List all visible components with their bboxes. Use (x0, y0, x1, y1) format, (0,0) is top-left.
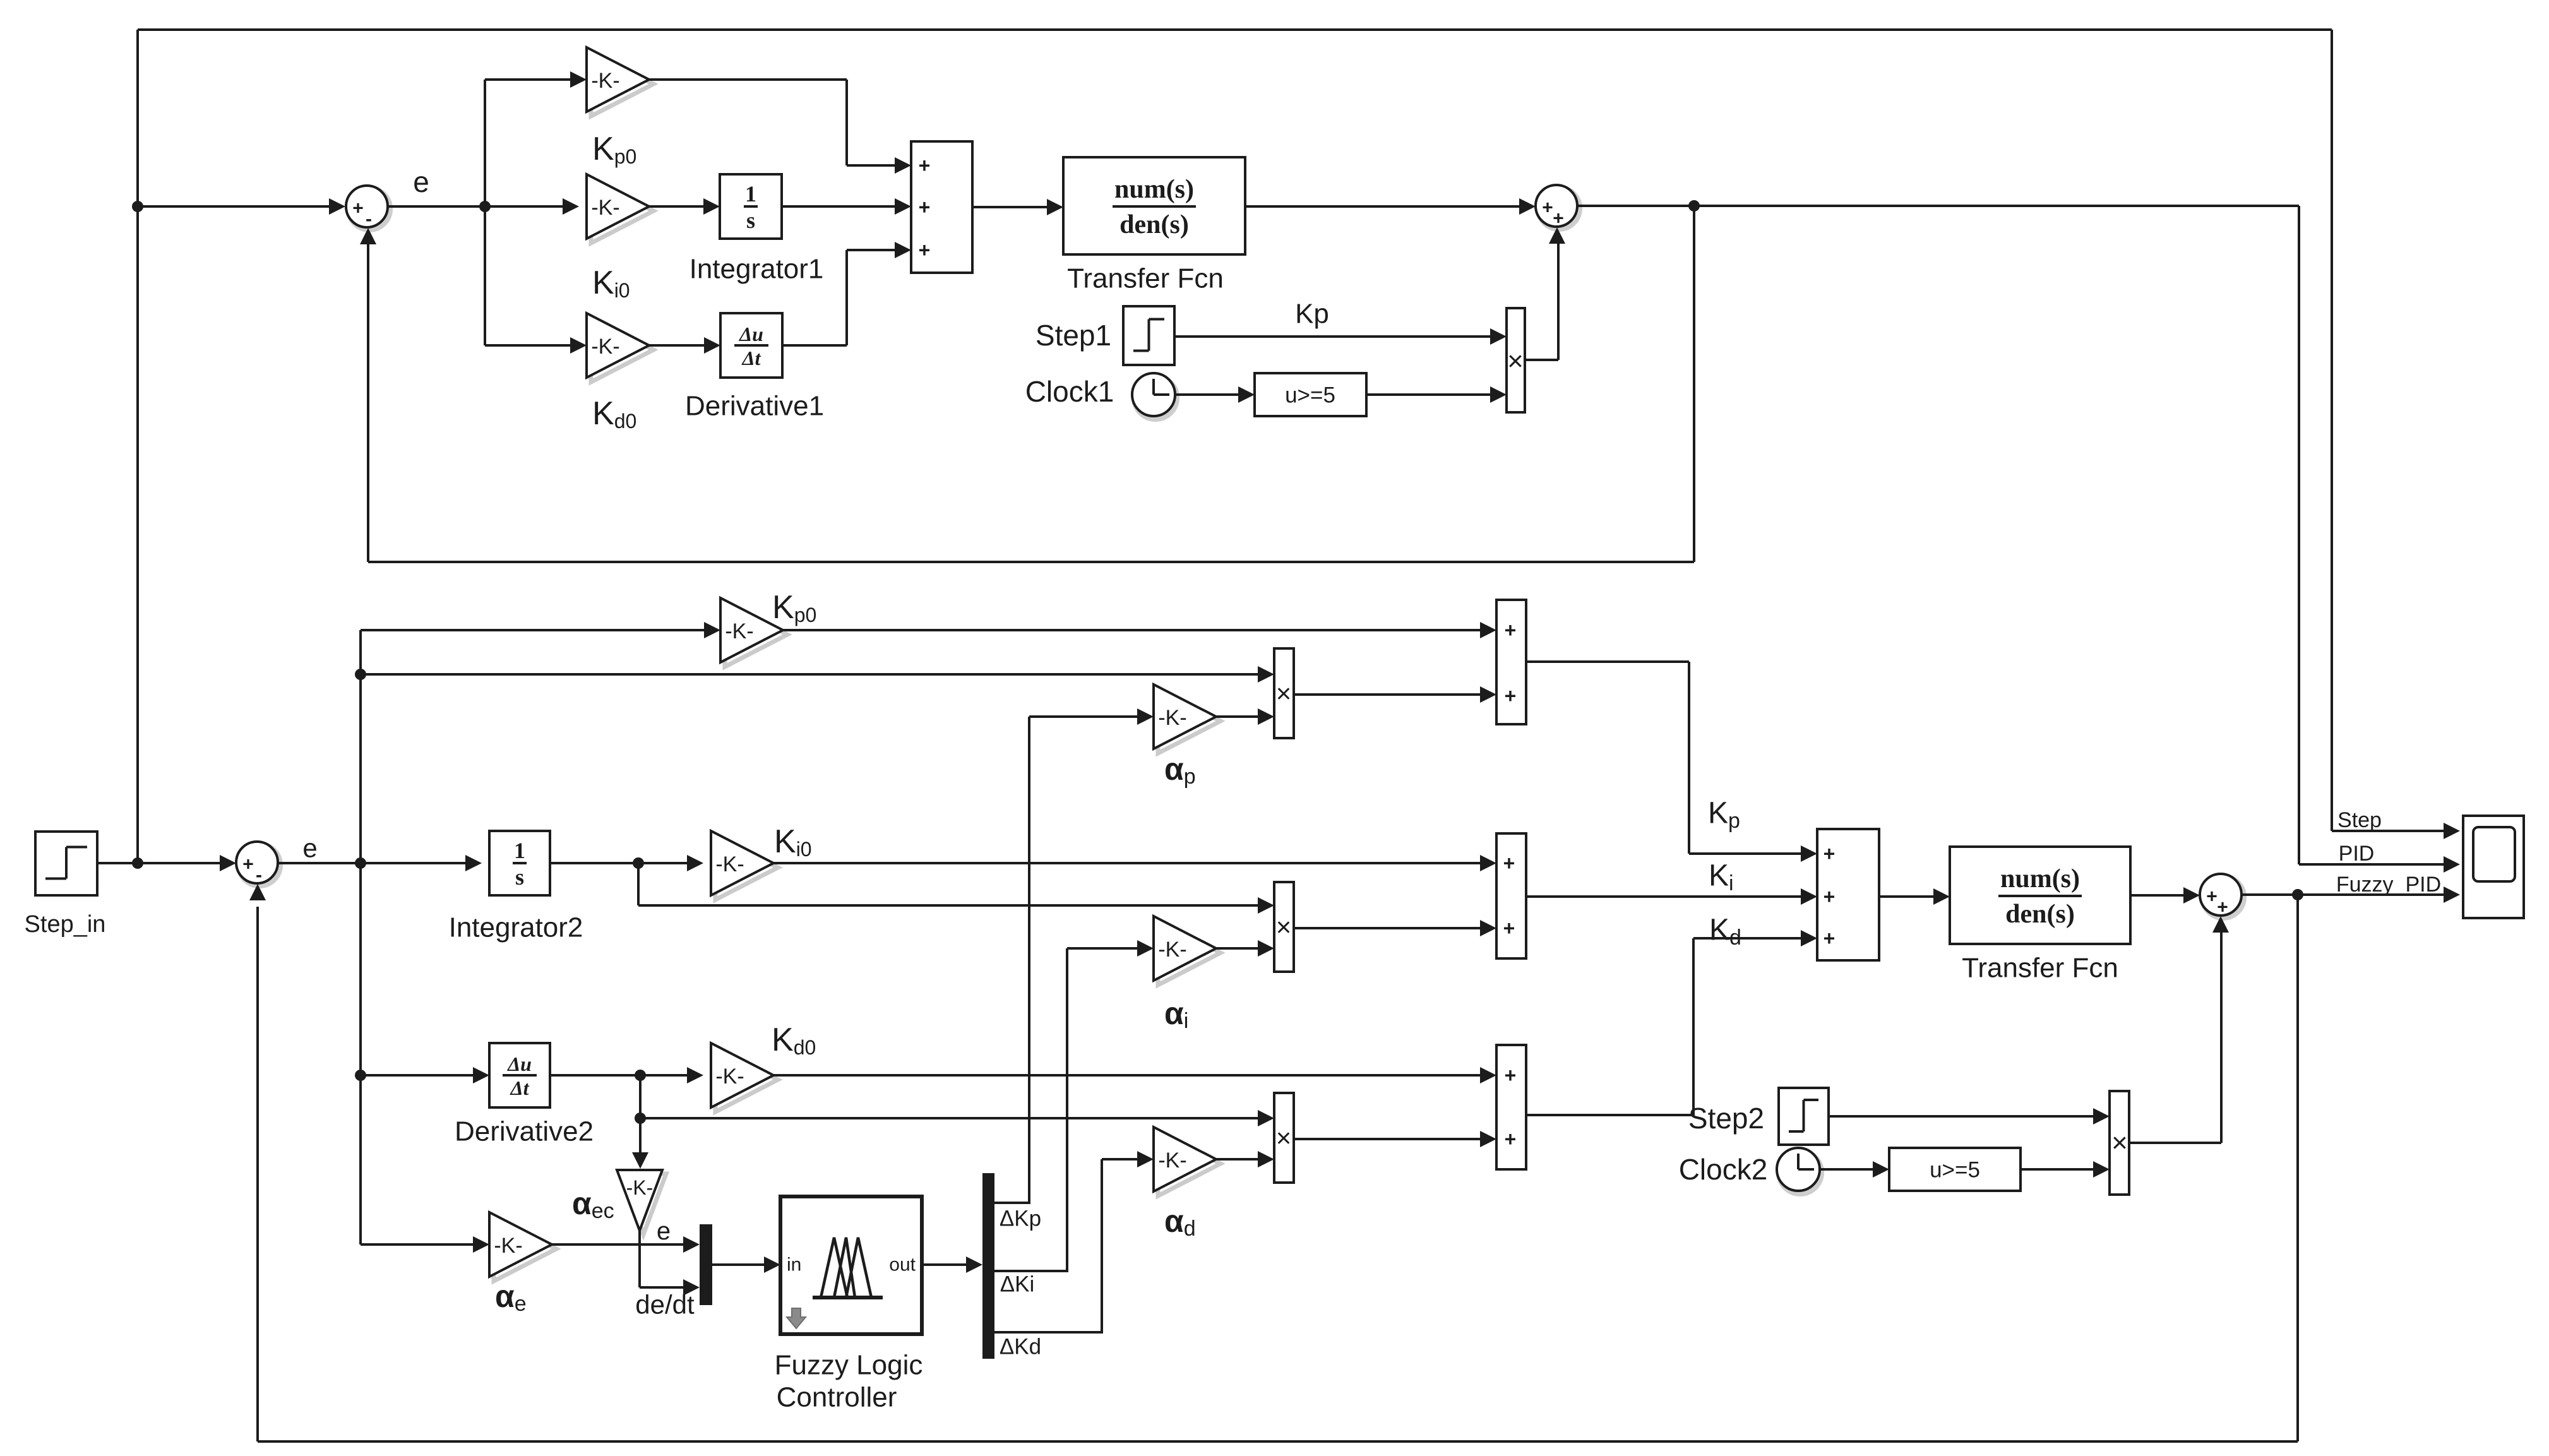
node: tap to PID sum (132, 201, 143, 212)
node: after Integrator2 (633, 857, 644, 869)
label Integrator2 (449, 912, 583, 943)
label dKi (1000, 1272, 1035, 1297)
wire: Product2 out up into sum S4 (2129, 916, 2229, 1143)
svg-text:num(s): num(s) (1114, 175, 1194, 204)
wire: Step1 out to product (1174, 328, 1507, 345)
svg-text:Fuzzy_PID: Fuzzy_PID (2336, 873, 2441, 897)
svg-text:e: e (302, 833, 317, 863)
label Kp0 (bottom) (772, 589, 816, 626)
svg-text:Δu: Δu (738, 323, 763, 345)
label Step_in (25, 911, 106, 938)
svg-text:PID: PID (2339, 842, 2375, 866)
label out (fuzzy port) (889, 1255, 916, 1275)
icon membership functions (813, 1238, 883, 1298)
svg-text:s: s (515, 864, 524, 890)
svg-text:-K-: -K- (715, 852, 744, 876)
wire: Kd0 out to d-sum (773, 1067, 1496, 1083)
wire: top PID output line (1577, 205, 2299, 207)
sum block Add1 (PID terms) (911, 141, 972, 273)
svg-text:+: + (242, 854, 254, 875)
sum junction S4 (fuzzy plant out + Kp disturbance) (2200, 874, 2244, 918)
gain Ki0 (top) (587, 174, 654, 243)
sum block (i path) (1496, 833, 1526, 958)
label Clock2 (1679, 1153, 1768, 1186)
label Ki (fuzzy) (1709, 859, 1734, 896)
svg-text:×: × (2111, 1128, 2128, 1159)
svg-text:Integrator2: Integrator2 (449, 912, 583, 943)
wire: Clock1 out (1175, 386, 1255, 403)
svg-text:-: - (366, 209, 372, 230)
wire: bottom feedback down (2296, 895, 2299, 1441)
svg-text:Integrator1: Integrator1 (689, 254, 824, 285)
wire: alpha-e out to mux (552, 1236, 700, 1253)
product block Product2 (2110, 1091, 2129, 1195)
gain Kp0 (bottom) (720, 598, 787, 667)
block compare u>=5 (bottom) (1889, 1148, 2021, 1191)
label Derivative1 (685, 391, 824, 422)
gain alpha-e (489, 1212, 556, 1281)
product block (i path) (1274, 882, 1294, 972)
wire: Add1 out to Transfer Fcn (972, 199, 1063, 215)
wire: Add2 out (1879, 888, 1950, 905)
svg-text:-K-: -K- (715, 1065, 744, 1089)
wire: Derivative1 out (782, 242, 911, 345)
svg-text:Clock1: Clock1 (1025, 375, 1114, 408)
label de/dt (635, 1290, 695, 1320)
svg-text:-: - (256, 865, 262, 886)
icon gray drop arrow (787, 1308, 806, 1328)
svg-text:+: + (1505, 684, 1517, 707)
svg-text:+: + (1503, 917, 1515, 940)
label Controller (777, 1382, 897, 1413)
gain Kd0 (bottom) (711, 1043, 778, 1112)
svg-text:+: + (1824, 842, 1836, 865)
block Step_in (35, 832, 97, 895)
wire: dKi out (994, 948, 1068, 1271)
svg-text:-K-: -K- (1158, 938, 1186, 962)
wire: e branch vertical (top) (484, 80, 486, 345)
svg-text:Δt: Δt (510, 1077, 530, 1099)
wire: i-product out (1294, 920, 1496, 936)
node: after Derivative2 (635, 1070, 646, 1081)
svg-text:Δu: Δu (506, 1053, 532, 1075)
block Integrator2 (489, 831, 550, 895)
svg-text:+: + (1824, 885, 1836, 908)
svg-text:×: × (1507, 346, 1524, 377)
block Transfer Fcn (bottom) (1950, 847, 2130, 944)
wire: alpha-i out to i-product (1216, 940, 1274, 957)
wire: e direct to p-product (361, 666, 1274, 683)
svg-text:+: + (352, 198, 364, 219)
svg-text:+: + (1505, 1064, 1517, 1087)
svg-text:in: in (787, 1255, 801, 1275)
gain alpha-d (1154, 1127, 1221, 1196)
wire: compare out to product (1366, 386, 1507, 403)
wire: alpha-ec out to mux (640, 1231, 700, 1296)
product block Product1 (1507, 308, 1525, 412)
svg-text:+: + (919, 196, 931, 218)
wire: top feedback up into sum1 (360, 228, 376, 562)
svg-text:u>=5: u>=5 (1285, 383, 1335, 408)
wire: bottom feedback up into sum2 (249, 884, 266, 1441)
label alpha-p (1164, 751, 1196, 789)
node: e branch (bottom) (355, 857, 366, 869)
wire: dKp out (994, 717, 1030, 1203)
wire: Kd to main sum (1526, 930, 1817, 1115)
wire: d-product out (1294, 1131, 1496, 1147)
label Step1 (1036, 319, 1111, 352)
wire: Product1 out up into sum S3 (1525, 227, 1565, 360)
svg-text:+: + (1542, 198, 1553, 218)
svg-text:Transfer Fcn: Transfer Fcn (1962, 953, 2118, 984)
svg-text:-K-: -K- (626, 1176, 654, 1199)
label dKp (1000, 1207, 1041, 1231)
sum junction S2 (e = ref - fuzzy out) (236, 842, 280, 886)
wire: into scope PID port (2299, 856, 2460, 873)
svg-text:1: 1 (745, 181, 756, 206)
wire: compare2 out to product (2021, 1161, 2110, 1178)
node: e to direct line (355, 669, 366, 680)
gain alpha-i (1154, 916, 1221, 985)
svg-text:e: e (413, 165, 429, 198)
svg-text:-K-: -K- (591, 335, 619, 359)
svg-text:+: + (2206, 886, 2218, 907)
wire: dKd out (994, 1159, 1103, 1332)
wire: sum1 output to gains (388, 198, 579, 215)
svg-text:Derivative1: Derivative1 (685, 391, 824, 422)
node: Step_in output junction (132, 857, 143, 869)
svg-text:+: + (919, 239, 931, 261)
label in (fuzzy port) (787, 1255, 801, 1275)
svg-text:ΔKi: ΔKi (1000, 1272, 1035, 1297)
wire: right vertical down to scope Step input (2331, 30, 2333, 831)
svg-text:den(s): den(s) (1119, 210, 1189, 239)
product block (p path) (1274, 648, 1294, 738)
label Clock1 (1025, 375, 1114, 408)
block Transfer Fcn (top) (1063, 157, 1245, 254)
svg-text:+: + (919, 154, 931, 177)
wire: dKd vertical up to alpha-d (1102, 1151, 1154, 1332)
label Kd0 (bottom) (772, 1022, 816, 1059)
label Transfer Fcn (bottom) (1962, 953, 2118, 984)
label Ki0 (top) (592, 265, 630, 302)
svg-text:Step1: Step1 (1036, 319, 1111, 352)
label Transfer Fcn (top) (1067, 263, 1224, 294)
wire: alpha-p out to p-product (1216, 708, 1274, 725)
label Kp (disturbance) (1295, 299, 1329, 330)
label Kd (fuzzy) (1709, 914, 1741, 950)
svg-text:+: + (1503, 852, 1515, 874)
wire: der branch down (639, 1075, 642, 1118)
label alpha-d (1164, 1203, 1196, 1241)
node: der branch (635, 1113, 646, 1124)
wire: Transfer Fcn out to sum (1245, 198, 1536, 215)
gain Ki0 (bottom) (711, 831, 778, 900)
wire: Kp0 out to p-sum (783, 622, 1496, 638)
svg-text:+: + (1553, 208, 1564, 229)
svg-text:-K-: -K- (1158, 706, 1186, 730)
sum junction S3 (plant out + Kp disturbance) (1536, 185, 1580, 229)
svg-text:×: × (1276, 679, 1292, 708)
wire: der direct to d-product (640, 1110, 1274, 1126)
scope block (2463, 816, 2524, 918)
svg-text:Δt: Δt (741, 347, 761, 369)
label Kp (fuzzy) (1708, 797, 1740, 833)
wire: Step2 out to product (1829, 1108, 2110, 1125)
label PID (scope input) (2339, 842, 2375, 866)
clock Clock2 (1777, 1148, 1822, 1194)
wire: p-product out (1294, 686, 1496, 703)
wire: Step_in out (97, 855, 236, 871)
svg-text:Step_in: Step_in (25, 911, 106, 938)
block compare u>=5 (top) (1255, 373, 1366, 416)
wire: alpha-d out to d-product (1216, 1151, 1274, 1167)
svg-text:Kp: Kp (1295, 299, 1329, 330)
wire: into Derivative1 (649, 337, 720, 354)
wire: int branch down (638, 863, 1274, 914)
node: PID output junction (1688, 200, 1700, 212)
label Derivative2 (455, 1116, 594, 1147)
label dKd (1000, 1335, 1041, 1359)
svg-text:Clock2: Clock2 (1679, 1153, 1768, 1186)
wire: top feedback down (1693, 206, 1695, 562)
wire: sum2 out to Integrator2 (278, 855, 482, 871)
wire: PID out vertical to scope row (2298, 206, 2300, 864)
sum block (d path) (1496, 1045, 1526, 1169)
block Integrator1 (720, 174, 782, 239)
wire: into gain Kp0 (top) (485, 71, 587, 88)
svg-text:den(s): den(s) (2005, 900, 2075, 929)
wire: Ki to main sum (1526, 888, 1817, 905)
wire: into Integrator1 (649, 198, 720, 215)
wire: top horizontal (Step feed to scope) (138, 28, 2332, 31)
svg-text:Step: Step (2337, 808, 2382, 832)
wire: fuzzy out to demux (922, 1256, 982, 1273)
sum junction S1 (e = ref - y) (346, 186, 390, 230)
label e (top) (413, 165, 429, 198)
wire: Integrator1 out (782, 198, 911, 215)
wire: dKi vertical up to alpha-i (1067, 940, 1154, 1271)
wire: Integrator2 out (550, 855, 703, 871)
wire: Ki0 out to i-sum (773, 855, 1496, 871)
svg-text:out: out (889, 1255, 916, 1275)
wire: into Derivative2 (361, 1067, 489, 1083)
wire: dKp vertical up to alpha-p (1029, 708, 1154, 1203)
wire: bottom feedback horizontal (258, 1440, 2298, 1443)
wire: mux out to fuzzy controller (712, 1256, 780, 1273)
label e (bottom) (302, 833, 317, 863)
svg-text:num(s): num(s) (2000, 864, 2080, 893)
wire: der down into alpha-ec (632, 1118, 648, 1169)
gain alpha-ec (down) (617, 1170, 666, 1234)
wire: e branch vertical (bottom) (359, 630, 362, 1244)
svg-text:ΔKp: ΔKp (1000, 1207, 1041, 1231)
svg-text:ΔKd: ΔKd (1000, 1335, 1041, 1359)
block Fuzzy Logic Controller (780, 1196, 922, 1334)
svg-text:×: × (1276, 1123, 1292, 1153)
block Step2 (1779, 1088, 1829, 1145)
svg-text:de/dt: de/dt (635, 1290, 695, 1320)
wire: into gain Kp0 (bottom) (361, 622, 720, 638)
node: e to Derivative2 (355, 1070, 366, 1081)
label Fuzzy Logic (775, 1350, 923, 1381)
label Step (scope input) (2337, 808, 2382, 832)
label alpha-e (495, 1279, 527, 1316)
mux block (700, 1224, 712, 1305)
svg-text:Fuzzy Logic: Fuzzy Logic (775, 1350, 923, 1381)
product block (d path) (1274, 1093, 1294, 1183)
svg-text:Derivative2: Derivative2 (455, 1116, 594, 1147)
svg-text:Controller: Controller (777, 1382, 897, 1413)
label Step2 (1688, 1102, 1764, 1135)
wire: Kp to main sum (1526, 662, 1817, 862)
gain Kd0 (top) (587, 313, 654, 382)
label Integrator1 (689, 254, 824, 285)
svg-text:-K-: -K- (494, 1234, 522, 1258)
svg-text:e: e (657, 1217, 671, 1245)
wire: top feedback horizontal (368, 561, 1694, 563)
svg-text:×: × (1276, 912, 1292, 942)
label Kp0 (top) (592, 131, 636, 168)
svg-text:-K-: -K- (591, 196, 619, 220)
gain Kp0 (top) (587, 47, 654, 116)
node: Fuzzy_PID junction (2292, 889, 2303, 900)
node: e branch (top) (479, 201, 491, 212)
label Fuzzy_PID (scope input) (2336, 873, 2441, 897)
svg-text:Transfer Fcn: Transfer Fcn (1067, 263, 1224, 294)
sum block Add2 (fuzzy PID terms) (1817, 829, 1879, 960)
wire: into gain alpha-e (361, 1236, 489, 1253)
wire: left vertical trunk from Step_in up to top (136, 30, 139, 863)
label alpha-ec (572, 1186, 614, 1223)
svg-text:1: 1 (514, 838, 525, 863)
gain alpha-p (1154, 684, 1221, 753)
wire: Fuzzy_PID out to scope (2242, 886, 2460, 903)
label e (fuzzy input) (657, 1217, 671, 1245)
clock Clock1 (1132, 373, 1177, 419)
block Derivative2 (489, 1043, 550, 1107)
svg-text:-K-: -K- (591, 69, 619, 93)
wire: into sum1 (138, 198, 345, 215)
svg-text:Step2: Step2 (1688, 1102, 1764, 1135)
svg-text:+: + (1505, 1128, 1517, 1150)
wire: into scope Step port (2332, 823, 2460, 839)
svg-text:+: + (1505, 619, 1517, 641)
block Step1 (1123, 306, 1174, 365)
svg-text:s: s (746, 208, 755, 233)
wire: Derivative2 out (550, 1067, 703, 1083)
block Derivative1 (720, 313, 782, 378)
svg-text:+: + (2217, 897, 2228, 918)
wire: Kp0 out (649, 80, 911, 174)
svg-text:+: + (1824, 927, 1836, 950)
wire: Transfer Fcn2 out (2130, 887, 2200, 904)
label Ki0 (bottom) (774, 823, 812, 861)
sum block (p path) (1496, 600, 1526, 724)
label Kd0 (top) (592, 395, 636, 433)
svg-text:-K-: -K- (1158, 1149, 1186, 1173)
wire: Clock2 out (1819, 1161, 1889, 1178)
demux block (982, 1173, 994, 1359)
svg-text:-K-: -K- (725, 619, 753, 643)
wire: into gain Kd0 (top) (485, 337, 587, 354)
label alpha-i (1164, 996, 1188, 1033)
svg-text:u>=5: u>=5 (1930, 1158, 1980, 1183)
